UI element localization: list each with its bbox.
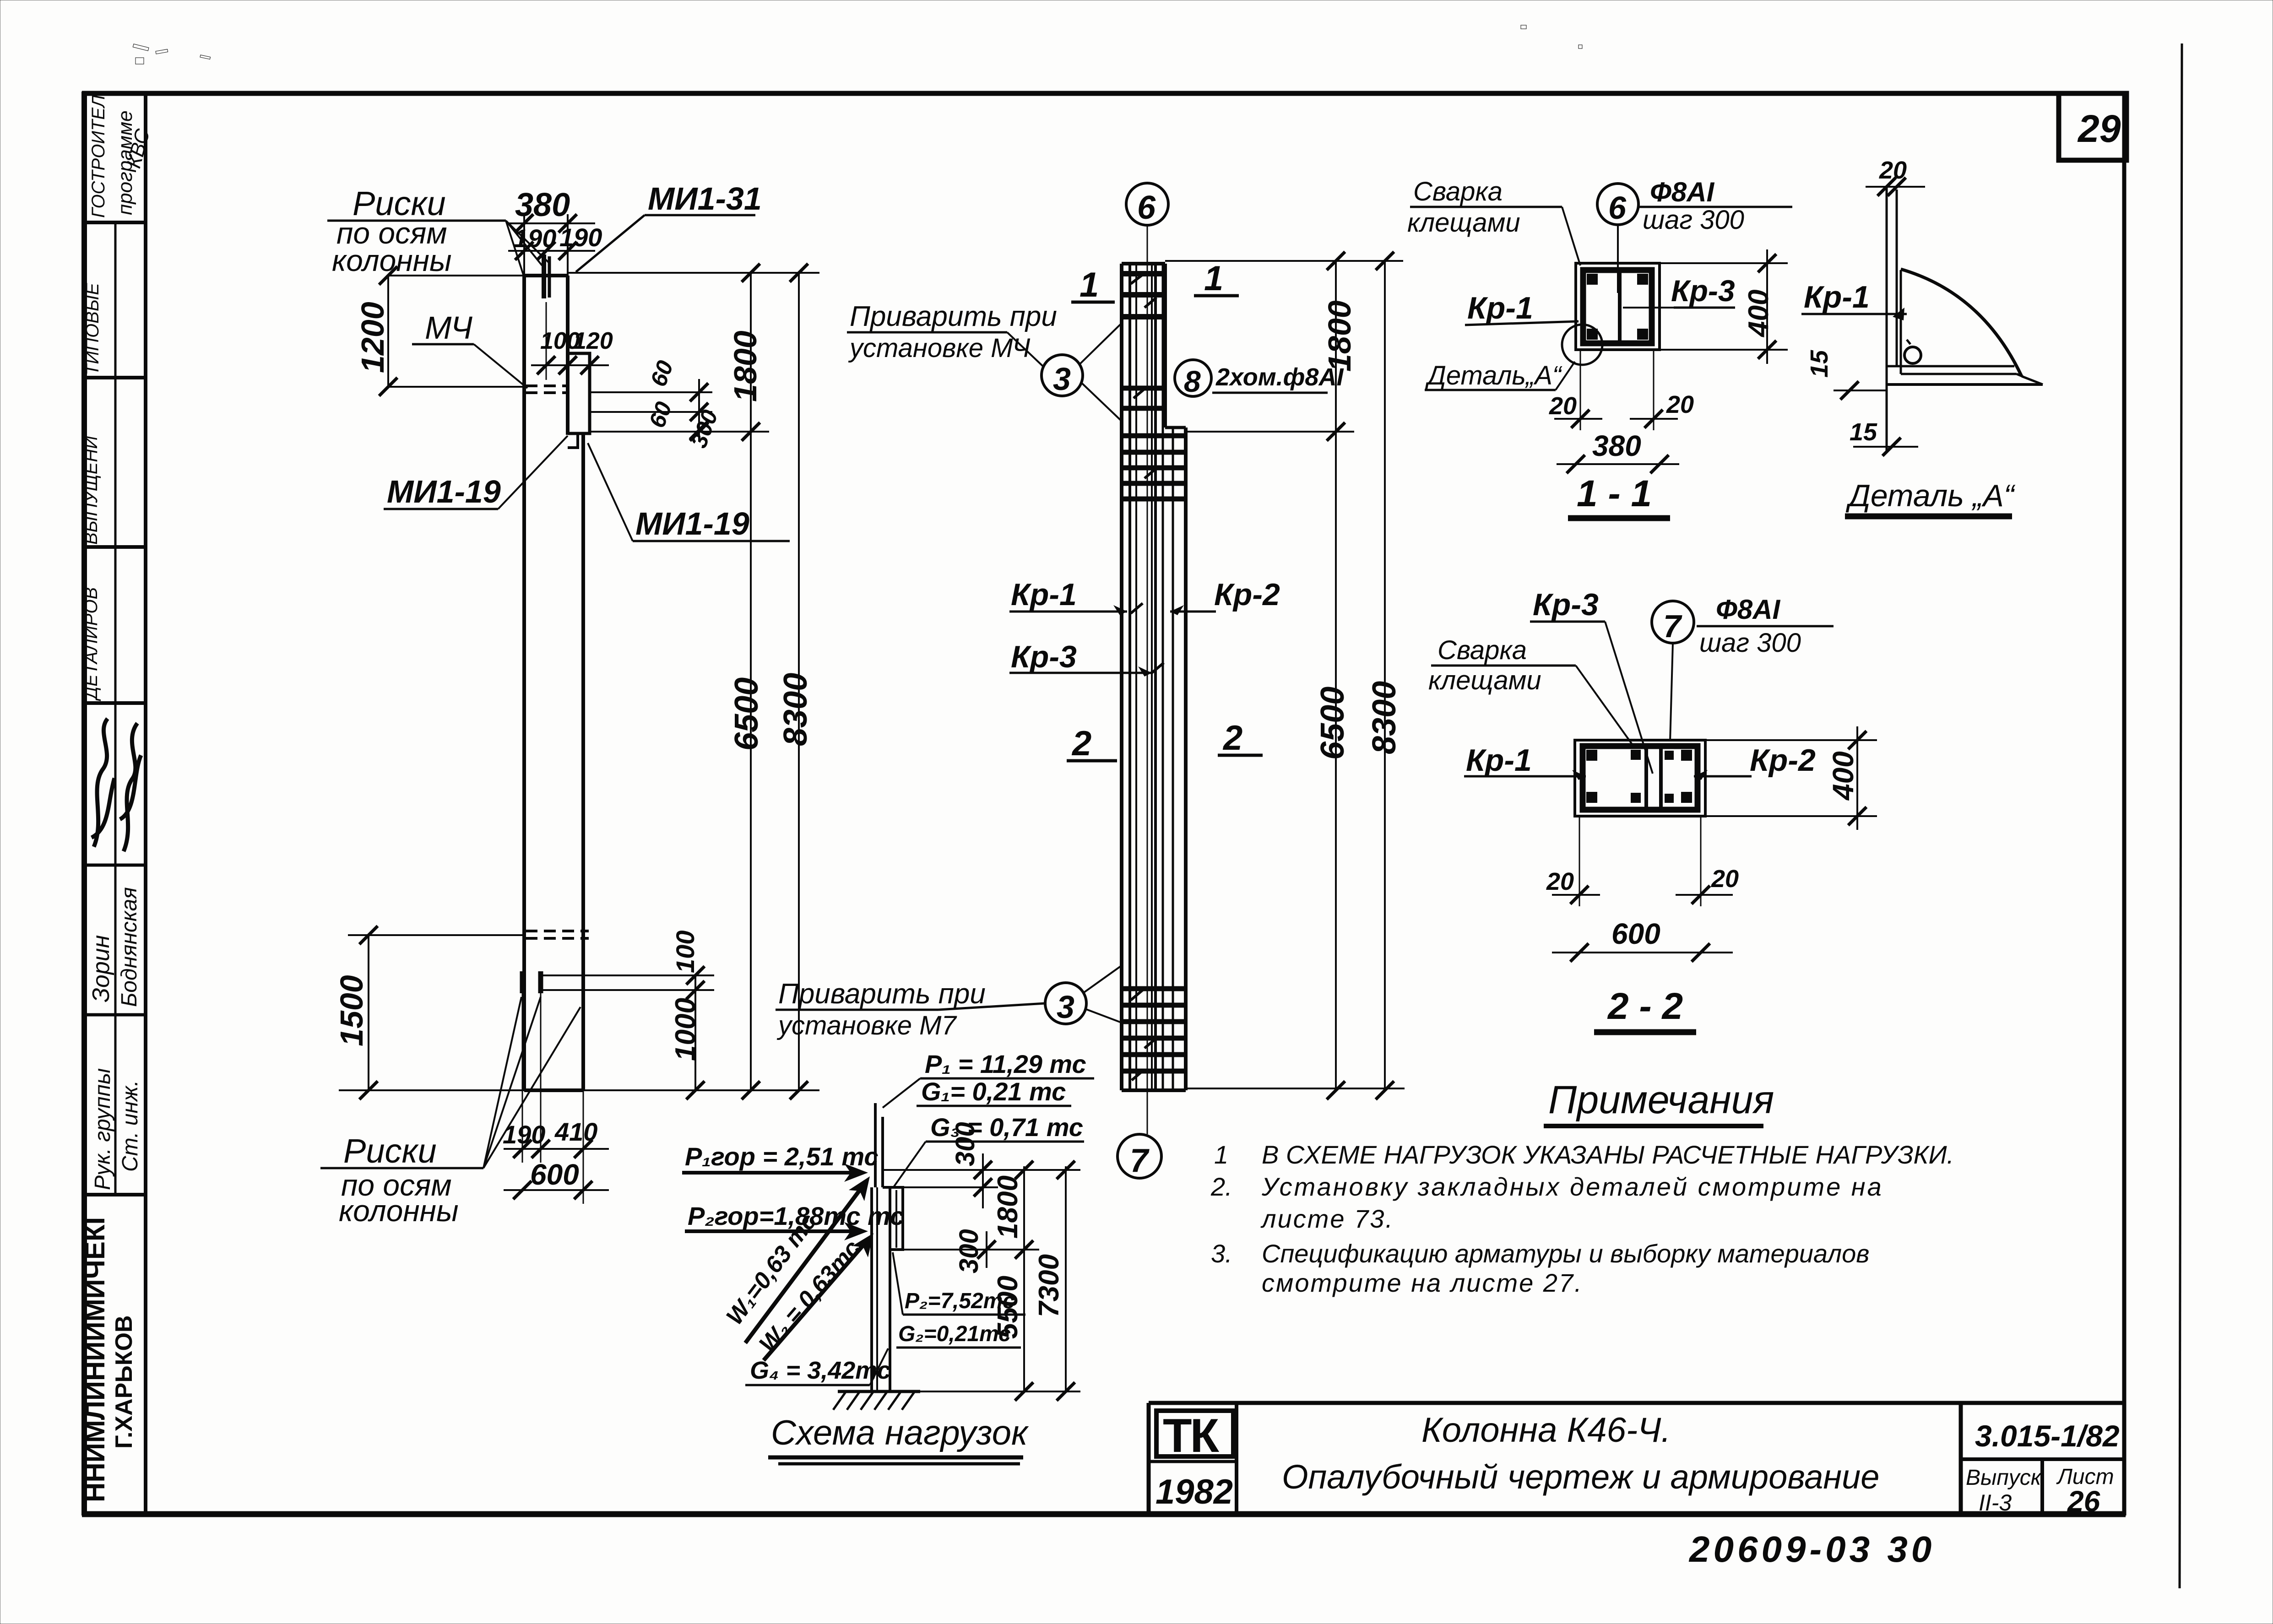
dim 600 bottom (504, 1189, 609, 1191)
svg-text:Рук. группы: Рук. группы (91, 1068, 115, 1190)
svg-text:600: 600 (1611, 917, 1660, 950)
frame left border (81, 92, 87, 1516)
svg-text:колонны: колонны (339, 1194, 459, 1228)
svg-text:Спецификацию арматуры и выборк: Спецификацию арматуры и выборку материал… (1262, 1239, 1869, 1268)
TK cell horizontal divider (1149, 1460, 1237, 1463)
corbel foot step (568, 433, 578, 448)
column top edge (524, 274, 568, 277)
svg-text:установке М7: установке М7 (776, 1011, 957, 1040)
svg-text:Сварка: Сварка (1413, 177, 1503, 206)
title block right divider (1959, 1405, 1963, 1514)
svg-text:2: 2 (1222, 719, 1242, 758)
rebar cage top edge (1122, 262, 1165, 265)
svg-text:6: 6 (1137, 189, 1156, 226)
svg-text:1800: 1800 (727, 330, 763, 402)
svg-text:7300: 7300 (1033, 1254, 1065, 1317)
svg-text:клещами: клещами (1428, 666, 1541, 695)
svg-text:1800: 1800 (992, 1175, 1024, 1239)
svg-text:Ф8АI: Ф8АI (1650, 177, 1715, 207)
stirrups top group (1122, 271, 1165, 276)
scan edge artifact line (2180, 43, 2182, 1588)
column centerline (1147, 225, 1148, 1134)
svg-text:1000: 1000 (670, 998, 701, 1061)
svg-text:ННИМЛИНИИМИЧЕКІ: ННИМЛИНИИМИЧЕКІ (80, 1217, 110, 1502)
svg-text:Кр-1: Кр-1 (1011, 577, 1077, 612)
detail A chamfer arc (1901, 269, 2022, 376)
svg-text:установке МЧ: установке МЧ (848, 333, 1031, 363)
frame bottom border (82, 1511, 2126, 1517)
rebar cage lower right edge (1184, 428, 1188, 1090)
load scheme corbel inner (895, 1190, 897, 1248)
svg-text:3.015-1/82: 3.015-1/82 (1975, 1419, 2120, 1453)
svg-text:Г.ХАРЬКОВ: Г.ХАРЬКОВ (111, 1315, 137, 1449)
section 2-2 corner bars (1586, 750, 1597, 761)
TK logo box (1156, 1411, 1233, 1456)
section 1-1 stirrup frame (1583, 270, 1652, 343)
load scheme dim 300 second (986, 1231, 987, 1268)
svg-text:Колонна К46-Ч.: Колонна К46-Ч. (1421, 1411, 1671, 1450)
ground line (838, 1390, 920, 1393)
svg-text:1982: 1982 (1155, 1472, 1233, 1511)
svg-text:15: 15 (1850, 418, 1877, 446)
svg-text:Деталь„А“: Деталь„А“ (1425, 361, 1562, 390)
stirrups corbel group (1122, 433, 1186, 438)
sidebar signature squiggles (92, 719, 114, 847)
svg-text:8300: 8300 (777, 673, 814, 746)
svg-text:20: 20 (1666, 391, 1694, 418)
svg-text:2 - 2: 2 - 2 (1607, 985, 1683, 1027)
svg-text:1: 1 (1214, 1140, 1228, 1169)
svg-text:7: 7 (1130, 1142, 1150, 1179)
svg-text:Примечания: Примечания (1548, 1078, 1774, 1122)
svg-text:Кр-3: Кр-3 (1011, 639, 1077, 674)
detail A face lines (1886, 187, 1888, 451)
svg-text:ДЕТАЛИРОВ: ДЕТАЛИРОВ (81, 587, 101, 701)
circled mark 7 section (1652, 601, 1694, 643)
svg-text:2: 2 (1071, 724, 1091, 763)
column lower right edge (581, 435, 585, 1090)
svg-text:Приварить при: Приварить при (778, 978, 986, 1010)
dim 1200 vertical (387, 276, 389, 387)
longitudinal rebar inner left (1135, 264, 1137, 1090)
svg-text:20: 20 (1546, 868, 1574, 895)
series number cell line (1961, 1457, 2124, 1461)
leader to circled 3 top (1007, 332, 1043, 366)
label W2 wind arrow (764, 1239, 869, 1360)
svg-text:Боднянская: Боднянская (117, 887, 141, 1007)
svg-text:шаг 300: шаг 300 (1699, 628, 1801, 658)
svg-text:15: 15 (1806, 350, 1833, 378)
M7 embedded plate dashed (526, 930, 589, 932)
load scheme dim extensions (884, 1169, 1080, 1171)
svg-text:6500: 6500 (728, 677, 765, 751)
section 2-2 inner stirrup legs (1644, 746, 1648, 810)
detail A rebar circle (1904, 347, 1921, 363)
svg-text:Сварка: Сварка (1438, 635, 1527, 665)
dim line 8300 middle column (1384, 261, 1386, 1090)
svg-text:380: 380 (1592, 429, 1641, 462)
sidebar row line 3 (84, 545, 146, 549)
title block left edge (1147, 1403, 1151, 1514)
svg-text:410: 410 (554, 1117, 597, 1146)
svg-text:3: 3 (1053, 361, 1071, 397)
svg-text:II-3: II-3 (1979, 1490, 2012, 1516)
svg-text:Кр-1: Кр-1 (1466, 743, 1532, 778)
sidebar mid divider (114, 222, 117, 1195)
longitudinal rebar inner right (1151, 264, 1153, 1090)
svg-text:8300: 8300 (1366, 681, 1403, 754)
svg-text:1800: 1800 (1322, 300, 1357, 372)
load scheme dim 7300 (1065, 1166, 1067, 1391)
label W1 wind arrow (745, 1183, 865, 1343)
load scheme column right edge (889, 1187, 891, 1391)
column left edge (522, 276, 526, 1090)
console plate small dims 60 60 300 (591, 391, 712, 393)
sidebar row line 5 (84, 864, 146, 867)
svg-text:1 - 1: 1 - 1 (1577, 473, 1652, 514)
sidebar row line 2 (84, 376, 146, 379)
svg-text:G₄ = 3,42тс: G₄ = 3,42тс (750, 1357, 891, 1384)
circled mark 7 bottom (1118, 1134, 1161, 1178)
svg-text:Кр-1: Кр-1 (1804, 280, 1870, 314)
dim line 1800-6500 inner left column (750, 273, 752, 1090)
dim line 190 190 (508, 250, 595, 252)
svg-text:МИ1-19: МИ1-19 (387, 474, 501, 509)
svg-text:300: 300 (954, 1229, 984, 1273)
svg-text:20: 20 (1549, 392, 1577, 420)
svg-text:ТК: ТК (1163, 1409, 1220, 1462)
load scheme mast right line (881, 1117, 884, 1187)
svg-text:Схема нагрузок: Схема нагрузок (771, 1413, 1029, 1452)
svg-text:1200: 1200 (355, 302, 391, 373)
bottom extension of left column (583, 1089, 819, 1091)
svg-text:Риски: Риски (343, 1132, 437, 1170)
svg-text:6: 6 (1608, 190, 1627, 226)
circled mark 6 top (1126, 183, 1168, 225)
svg-text:Кр-2: Кр-2 (1214, 577, 1280, 612)
scan smudges top left (133, 25, 1582, 64)
svg-text:20609-03 30: 20609-03 30 (1688, 1529, 1935, 1570)
svg-text:3: 3 (1057, 989, 1074, 1025)
axis riska ticks bottom (520, 971, 525, 993)
section 1-1 inner stirrup leg (1618, 270, 1622, 343)
corbel console outline (568, 353, 590, 433)
longitudinal rebar Kr-1 (1128, 264, 1131, 1090)
detail A circle mark (1562, 325, 1602, 365)
dim line 380 (508, 222, 595, 224)
svg-text:Ст. инж.: Ст. инж. (118, 1080, 142, 1172)
dim 190 410 bottom (522, 993, 523, 1163)
svg-text:1: 1 (1204, 259, 1223, 298)
svg-text:Опалубочный чертеж и армирован: Опалубочный чертеж и армирование (1282, 1458, 1879, 1496)
dim 400 section 2-2 (1705, 739, 1877, 741)
dim 1500 (368, 935, 369, 1090)
dim 600 section 2-2 (1552, 952, 1733, 953)
svg-text:7: 7 (1663, 608, 1682, 644)
svg-text:300: 300 (686, 406, 723, 451)
svg-text:400: 400 (1743, 290, 1774, 338)
ground hatch (833, 1391, 846, 1410)
title block divider TK cell (1235, 1403, 1238, 1514)
svg-text:МИ1-31: МИ1-31 (648, 181, 762, 217)
svg-text:6500: 6500 (1314, 687, 1351, 760)
svg-text:Кр-3: Кр-3 (1533, 587, 1599, 622)
svg-text:ВЫПУЩЕНИ: ВЫПУЩЕНИ (81, 436, 101, 545)
sidebar row line 7 (84, 1193, 146, 1196)
sidebar right line (144, 93, 147, 1514)
column bottom edge (524, 1088, 583, 1092)
svg-text:8: 8 (1184, 364, 1201, 398)
rebar cage step (1165, 426, 1186, 429)
svg-text:ТИПОВЫЕ: ТИПОВЫЕ (82, 282, 103, 375)
vypusk list divider (2040, 1459, 2044, 1514)
section 2-2 stirrup frame (1583, 746, 1698, 810)
rebar cage left edge (1120, 264, 1123, 1090)
svg-text:Кр-1: Кр-1 (1467, 291, 1533, 325)
dim 400 section 1-1 (1660, 262, 1788, 264)
svg-text:МИ1-19: МИ1-19 (635, 506, 749, 541)
column upper right edge (566, 276, 570, 435)
dim 20 20 section 1-1 (1580, 350, 1581, 430)
load scheme column inner line (876, 1187, 878, 1391)
axis riska ticks top (542, 254, 546, 298)
svg-text:26: 26 (2067, 1485, 2100, 1518)
svg-text:P₁ = 11,29 тс: P₁ = 11,29 тс (925, 1050, 1086, 1078)
svg-text:2.: 2. (1210, 1172, 1232, 1201)
svg-text:Кр-3: Кр-3 (1671, 274, 1735, 308)
svg-text:Выпуск: Выпуск (1966, 1466, 2042, 1490)
svg-text:клещами: клещами (1407, 208, 1520, 238)
dim 380 section 1-1 (1557, 463, 1679, 465)
svg-text:листе 73.: листе 73. (1260, 1204, 1394, 1233)
section 1-1 concrete outline (1576, 263, 1660, 350)
circled mark 8 (1175, 360, 1211, 396)
weld tick marks (1131, 275, 1143, 284)
section 2-2 concrete outline (1575, 740, 1705, 816)
svg-text:380: 380 (515, 187, 570, 223)
dim 380 extension lines (523, 214, 525, 276)
svg-text:МЧ: МЧ (425, 310, 473, 346)
load scheme corbel (883, 1187, 903, 1250)
load scheme mast left line (874, 1103, 877, 1187)
detail A bottom edges (1887, 365, 2014, 368)
load scheme dim 300 top (982, 1153, 984, 1208)
svg-text:20: 20 (1711, 865, 1739, 893)
svg-text:В СХЕМЕ НАГРУЗОК УКАЗАНЫ РАСЧЕ: В СХЕМЕ НАГРУЗОК УКАЗАНЫ РАСЧЕТНЫЕ НАГРУ… (1262, 1140, 1954, 1169)
svg-text:3.: 3. (1211, 1239, 1232, 1268)
svg-text:1500: 1500 (334, 975, 369, 1046)
svg-text:Ф8АІ: Ф8АІ (1716, 594, 1781, 625)
title block top line (1149, 1401, 2124, 1405)
dim 20 20 section 2-2 (1579, 816, 1580, 906)
circled mark 6 section (1597, 184, 1638, 225)
sidebar row line 1 (84, 221, 146, 224)
svg-text:400: 400 (1827, 751, 1860, 801)
svg-text:G₁= 0,21 тс: G₁= 0,21 тс (921, 1077, 1066, 1106)
rebar cage upper right edge (1163, 264, 1167, 428)
sidebar row line 6 (84, 1013, 146, 1017)
svg-text:190: 190 (503, 1120, 545, 1149)
svg-text:60: 60 (644, 398, 677, 431)
svg-text:Деталь „А“: Деталь „А“ (1845, 478, 2016, 513)
detail A inner edge (1900, 270, 1902, 374)
dim 100 1000 right of column bottom (694, 975, 696, 1090)
svg-text:190: 190 (559, 223, 602, 252)
svg-text:Кр-2: Кр-2 (1750, 743, 1816, 778)
svg-text:29: 29 (2077, 107, 2121, 150)
svg-text:Установку закладных деталей см: Установку закладных деталей смотрите на (1261, 1172, 1883, 1201)
dim line 8300 outer left column (798, 273, 800, 1090)
svg-text:Приварить при: Приварить при (850, 301, 1057, 332)
svg-text:ГОСТРОИТЕЛ: ГОСТРОИТЕЛ (88, 95, 108, 218)
svg-text:100: 100 (671, 931, 700, 973)
svg-text:120: 120 (573, 328, 613, 354)
frame top border (82, 91, 2126, 96)
longitudinal rebar Kr-3 (1154, 264, 1157, 1090)
svg-text:смотрите на листе 27.: смотрите на листе 27. (1262, 1268, 1583, 1297)
stirrups mid group (1122, 386, 1165, 391)
longitudinal rebar Kr-2 (1162, 264, 1164, 1090)
dim line 1800-6500 middle column (1335, 261, 1337, 1090)
circled mark 3 top (1042, 355, 1083, 396)
svg-text:Зорин: Зорин (88, 935, 114, 1002)
svg-text:300: 300 (950, 1122, 980, 1166)
sheet number box 29 (2059, 93, 2127, 160)
svg-text:60: 60 (646, 357, 678, 390)
svg-text:шаг 300: шаг 300 (1643, 205, 1744, 235)
section 1-1 corner bars (1587, 274, 1598, 285)
svg-text:600: 600 (530, 1158, 579, 1191)
rebar cage bottom edge (1122, 1088, 1186, 1092)
stirrups bottom group (1122, 986, 1186, 991)
load scheme dim 1800 5500 (1023, 1166, 1025, 1391)
MCh embedded plate dashed (526, 384, 567, 387)
svg-text:5500: 5500 (992, 1276, 1024, 1339)
svg-text:1: 1 (1080, 265, 1099, 304)
circled mark 3 bottom (1045, 983, 1086, 1024)
frame right border (2122, 92, 2127, 1516)
load scheme column left edge (870, 1187, 873, 1391)
longitudinal rebar lower extra (1172, 428, 1174, 1090)
bottom extension middle column (1186, 1088, 1405, 1089)
sidebar row line 4 (84, 701, 146, 705)
